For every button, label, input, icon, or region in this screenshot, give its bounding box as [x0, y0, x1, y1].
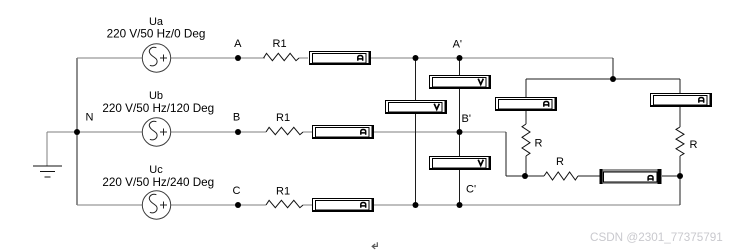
svg-text:B': B'	[462, 113, 471, 125]
voltage source Uc	[142, 191, 170, 219]
svg-text:C': C'	[466, 183, 476, 195]
voltmeter V2	[429, 75, 491, 89]
svg-text:Ua: Ua	[149, 16, 164, 28]
svg-text:220 V/50 Hz/120 Deg: 220 V/50 Hz/120 Deg	[102, 102, 214, 115]
svg-text:A': A'	[453, 39, 462, 51]
node N	[74, 129, 80, 135]
junction: C row tap (V1)	[413, 202, 419, 208]
resistor R (left vertical)	[522, 124, 530, 156]
svg-text:A: A	[234, 38, 242, 50]
resistor R1 phase B	[266, 127, 303, 134]
resistor R (right vertical)	[676, 127, 684, 156]
svg-text:N: N	[86, 112, 94, 124]
voltage source Ua	[142, 44, 170, 72]
svg-text:Ub: Ub	[149, 90, 163, 102]
return mark	[372, 242, 377, 249]
ammeter A6 (bottom chain, selected style)	[600, 169, 662, 184]
svg-text:C: C	[233, 185, 241, 197]
ammeter A1 (phase A)	[309, 51, 371, 65]
wire: bottom chain segments	[578, 176, 680, 205]
wire: top right feed (A row corner down to distribution rail)	[526, 58, 680, 97]
wire: below ammeter A4 to R and bottom node	[525, 111, 527, 176]
svg-text:B: B	[233, 112, 240, 124]
svg-text:Uc: Uc	[149, 164, 163, 176]
junction: A row tap	[413, 55, 419, 61]
voltmeter V3	[429, 156, 491, 170]
node B'	[457, 129, 463, 135]
junction: bottom right node	[677, 173, 683, 179]
svg-text:R: R	[556, 156, 564, 168]
ammeter A5 (right branch)	[650, 93, 712, 107]
wire: vertical branch through V1 (A to C)	[415, 58, 417, 205]
wire: phase C row horizontal	[77, 204, 680, 206]
resistor R (bottom horizontal)	[544, 172, 578, 180]
svg-text:220 V/50 Hz/0 Deg: 220 V/50 Hz/0 Deg	[107, 28, 206, 41]
wire: vertical branch A' B' C' through V2 V3	[459, 58, 461, 205]
svg-text:220 V/50 Hz/240 Deg: 220 V/50 Hz/240 Deg	[102, 176, 214, 189]
resistor R1 phase A	[264, 53, 300, 60]
junction: C row tap (V3)	[457, 202, 463, 208]
ground	[33, 166, 62, 177]
wire: ground branch	[47, 132, 77, 166]
voltage source Ub	[142, 118, 170, 146]
svg-text:CSDN @2301_77375791: CSDN @2301_77375791	[590, 231, 723, 244]
resistor R1 phase C	[266, 200, 303, 207]
wire: B' bend down to bottom chain	[506, 132, 544, 176]
node B	[235, 129, 241, 135]
ammeter A4 (left branch)	[495, 97, 557, 111]
wire: below ammeter A5 to R and bottom right node	[679, 107, 681, 176]
wire: phase B row horizontal	[77, 131, 506, 133]
voltmeter V1	[385, 100, 447, 114]
node A'	[457, 55, 463, 61]
wire: left neutral bus vertical	[76, 58, 78, 205]
svg-text:R: R	[690, 139, 698, 151]
ammeter A3 (phase C)	[312, 198, 374, 212]
junction: bottom left node	[522, 173, 528, 179]
svg-text:R1: R1	[273, 38, 287, 50]
wire: phase A row horizontal	[77, 57, 613, 59]
junction: distribution rail	[610, 76, 616, 82]
ammeter A2 (phase B)	[312, 125, 374, 139]
node C	[235, 202, 241, 208]
svg-text:R: R	[535, 137, 543, 149]
svg-text:R1: R1	[276, 186, 290, 198]
node A	[235, 55, 241, 61]
svg-text:R1: R1	[276, 112, 290, 124]
